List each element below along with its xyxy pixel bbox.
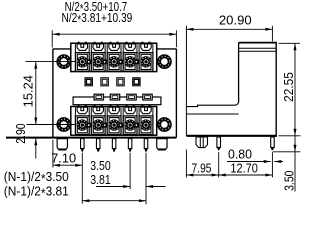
inter-terminal bridge <box>135 123 138 127</box>
front view body outline <box>53 49 176 138</box>
terminal contact <box>123 116 137 135</box>
svg-text:3.81: 3.81 <box>90 172 111 187</box>
row span dimension line <box>82 200 146 202</box>
side view top inner lines <box>239 47 277 49</box>
side view plug ledge upper line <box>186 102 238 106</box>
front view solder pins <box>81 139 85 149</box>
inter-terminal bridge <box>119 60 122 64</box>
wire entry funnel <box>125 107 135 114</box>
side view tall section left edge <box>238 43 240 103</box>
terminal contact <box>91 53 105 72</box>
svg-text:15.24: 15.24 <box>20 75 35 107</box>
ledge tabs <box>94 94 103 100</box>
terminal contact <box>75 53 89 72</box>
wire entry funnel <box>141 107 151 114</box>
left anchor peg <box>57 139 67 150</box>
wire entry funnel <box>109 44 119 51</box>
terminal contact <box>75 116 89 135</box>
inter-terminal bridge <box>87 60 90 64</box>
mounting screw (knurled) <box>157 117 172 132</box>
inter-terminal bridge <box>103 123 106 127</box>
wire entry funnel <box>109 107 119 114</box>
svg-text:12.70: 12.70 <box>230 160 258 175</box>
terminal contact <box>107 116 121 135</box>
top screw centerline leader <box>26 61 76 63</box>
overall width dimension line <box>53 33 177 35</box>
side view bottom edge <box>186 135 276 137</box>
mounting screw (knurled) <box>157 54 172 69</box>
svg-text:3.50: 3.50 <box>282 171 297 191</box>
side front solder pin <box>217 137 221 147</box>
wire entry funnel <box>77 44 87 51</box>
svg-text:7.95: 7.95 <box>192 160 212 175</box>
terminal contact <box>123 53 137 72</box>
side rear solder pin <box>271 137 275 147</box>
front view body bottom edge <box>6 137 176 139</box>
wire entry funnel <box>125 44 135 51</box>
svg-text:2.90: 2.90 <box>13 123 28 143</box>
side view plug ledge lower line <box>186 113 238 115</box>
svg-text:20.90: 20.90 <box>219 12 252 27</box>
inter-terminal bridge <box>135 60 138 64</box>
terminal contact <box>107 53 121 72</box>
wire entry funnel <box>141 44 151 51</box>
wire entry funnel <box>93 44 103 51</box>
svg-text:N/2*​3.81+10.39: N/2*​3.81+10.39 <box>62 10 133 27</box>
side view top edge <box>239 42 277 44</box>
right anchor peg <box>157 139 167 150</box>
terminal contact <box>139 53 153 72</box>
side anchor peg with slot <box>196 137 208 148</box>
svg-text:22.55: 22.55 <box>281 72 296 102</box>
unit separator walls top row <box>74 44 76 53</box>
lower terminal block <box>71 107 157 136</box>
side view back edge <box>275 42 277 137</box>
mounting screw (knurled) <box>56 54 71 69</box>
pin extension lines <box>81 153 83 204</box>
pitch dimension line <box>96 186 130 188</box>
side view plug front face and extension <box>185 26 187 136</box>
terminal contact <box>91 116 105 135</box>
inter-terminal bridge <box>87 123 90 127</box>
mounting screw (knurled) <box>56 117 71 132</box>
middle window row <box>85 78 92 86</box>
bottom screw centerline leader <box>27 124 76 126</box>
svg-text:7.10: 7.10 <box>51 151 76 166</box>
wire entry funnel <box>93 107 103 114</box>
inter-terminal bridge <box>119 123 122 127</box>
wire entry funnel <box>77 107 87 114</box>
inter-terminal bridge <box>103 60 106 64</box>
lower block ledge bar <box>73 97 161 105</box>
terminal contact <box>139 116 153 135</box>
svg-text:(N-1)/2*​3.81: (N-1)/2*​3.81 <box>4 183 69 200</box>
upper terminal block <box>71 43 157 71</box>
unit separator walls bottom row <box>74 107 76 116</box>
